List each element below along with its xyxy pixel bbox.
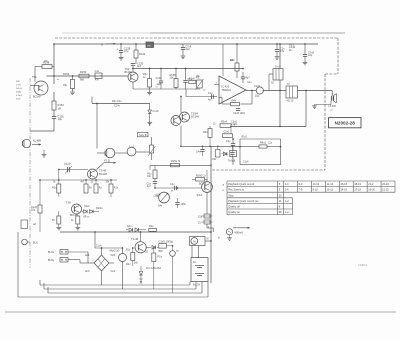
svg-text:R1/2x: R1/2x [96, 207, 103, 210]
connector BU12 [60, 258, 68, 263]
svg-text:B30: B30 [159, 251, 164, 253]
wire to speaker [298, 90, 333, 92]
test point arrow [233, 227, 250, 229]
connector BU2 [21, 220, 28, 229]
svg-text:R-C 160x164: R-C 160x164 [146, 267, 161, 270]
op-amp input stub [214, 84, 219, 86]
resistor R17b [149, 228, 157, 231]
svg-text:G1x: G1x [127, 225, 132, 228]
svg-text:47µ: 47µ [124, 49, 129, 53]
resistor R164 [84, 184, 88, 193]
component box mid [216, 150, 221, 158]
capacitor C134 [185, 69, 187, 81]
resistor R1b [208, 129, 212, 138]
capacitor C 100n [175, 202, 179, 204]
feedback resistor R4x [231, 102, 240, 105]
speaker LS402 [330, 96, 332, 101]
svg-text:19-20: 19-20 [368, 188, 375, 192]
wire TS3 feed [180, 97, 182, 113]
wire IC pin feed [222, 44, 224, 76]
svg-text:S4x2: S4x2 [197, 194, 203, 197]
svg-text:TBA641: TBA641 [222, 88, 232, 92]
box Solv B [138, 132, 149, 136]
capacitor C130 [132, 66, 134, 72]
wire TS3 down [180, 126, 182, 147]
svg-text:R142: R142 [139, 52, 146, 56]
wire IC supply [236, 44, 238, 63]
ground R156 [147, 91, 152, 93]
svg-text:C1x: C1x [208, 92, 213, 95]
svg-text:1M: 1M [58, 107, 61, 110]
svg-text:DYN: DYN [16, 85, 21, 87]
svg-text:R1x C1x: R1x C1x [112, 100, 122, 103]
svg-text:R1x: R1x [149, 225, 154, 228]
svg-text:1µ8: 1µ8 [157, 83, 162, 86]
faint bottom scan rule [5, 311, 396, 313]
connector BU11 [60, 250, 68, 255]
svg-text:15-16: 15-16 [340, 182, 347, 186]
svg-text:5mV: 5mV [16, 99, 21, 101]
bias arrow [97, 163, 105, 170]
capacitor C148 input [39, 180, 41, 205]
resistor R17x col [153, 170, 157, 179]
svg-text:10µ: 10µ [308, 54, 313, 57]
svg-text:47µ: 47µ [280, 50, 285, 53]
svg-text:TS6: TS6 [66, 201, 71, 205]
nest wire 4 [18, 296, 208, 298]
osc top wire [60, 231, 211, 233]
rect diode GR5 [129, 228, 133, 232]
svg-text:BU1x: BU1x [48, 251, 55, 254]
capacitor Ta [230, 151, 237, 157]
svg-text:C1x6: C1x6 [243, 162, 249, 164]
svg-text:R3x4: R3x4 [221, 121, 227, 124]
wire loop left [239, 139, 241, 165]
motor M [190, 237, 206, 246]
diode mid [223, 152, 227, 156]
svg-text:C1x0: C1x0 [114, 250, 120, 253]
bridge bottom wire [101, 271, 103, 285]
resistor R172 [76, 216, 80, 224]
capacitor C126 [52, 116, 56, 118]
battery cells [195, 265, 204, 267]
wire IC output [246, 90, 257, 92]
capacitor C128 [120, 44, 122, 51]
wire to head2 [96, 104, 98, 149]
test point ground [229, 235, 231, 238]
feedback loop [251, 91, 253, 105]
wire collector drop TS1 [53, 44, 55, 84]
resistor R170 [57, 216, 61, 224]
resistor R160 [196, 178, 205, 181]
svg-text:R16a 7k: R16a 7k [171, 160, 181, 163]
svg-text:S1x2: S1x2 [84, 205, 90, 208]
connector WB [146, 42, 154, 48]
ground below R152 [70, 91, 75, 93]
svg-text:2-4: 2-4 [285, 188, 289, 192]
resistor R178 [152, 253, 156, 262]
svg-text:R1x: R1x [158, 256, 163, 259]
ground S2 top [149, 123, 151, 126]
chassis ground zener [139, 279, 143, 282]
resistor R162 [58, 170, 60, 185]
nest wire 2 [44, 288, 196, 290]
resistor R156 [149, 69, 151, 79]
capacitor C17x col [153, 181, 157, 183]
svg-text:x1x: x1x [330, 110, 333, 112]
svg-text:C1x2: C1x2 [254, 85, 260, 88]
bridge top wire [101, 248, 103, 255]
op-amp IC420 [219, 76, 246, 104]
supply bus wire [54, 43, 318, 45]
svg-text:R1x2: R1x2 [242, 137, 248, 139]
svg-text:K7 11: K7 11 [104, 160, 111, 163]
svg-text:0.4x: 0.4x [196, 151, 201, 154]
svg-text:Gr2: Gr2 [111, 253, 116, 257]
svg-text:Quality on: Quality on [228, 210, 240, 214]
diode pair [82, 211, 84, 213]
resistor R1x4 [235, 63, 239, 71]
capacitor C mid1 [202, 146, 204, 149]
transistor TS40 [88, 169, 98, 179]
trimmer P1 [197, 80, 203, 88]
test point circle [226, 229, 232, 235]
svg-text:BC149: BC149 [33, 96, 41, 99]
wire rail link [150, 164, 211, 166]
svg-text:Rec Stereo to: Rec Stereo to [228, 188, 244, 192]
svg-text:B: B [101, 43, 103, 47]
resistor R3b [223, 134, 233, 138]
wire base TS1 [30, 85, 39, 87]
svg-text:7-9: 7-9 [299, 188, 303, 192]
resistor R176 [131, 253, 135, 261]
svg-text:10µ: 10µ [255, 94, 260, 97]
capacitor C136 supply [276, 44, 278, 50]
capacitor C136b [232, 139, 234, 144]
dashed frame step [325, 73, 338, 75]
transistor TS7 [202, 182, 213, 193]
capacitor C138 [304, 44, 306, 55]
svg-text:C1x: C1x [226, 140, 231, 143]
svg-text:8-10: 8-10 [313, 188, 319, 192]
wire loop bottom [240, 164, 281, 166]
wire to opamp input [186, 96, 213, 98]
feedback capacitor C1x8 [236, 108, 240, 110]
ground erase [147, 121, 152, 123]
wire base row TS7 [155, 187, 202, 189]
coupling C1x2 [256, 87, 263, 94]
screen dash-dot line [29, 78, 31, 268]
left rail [17, 232, 19, 297]
resistor R166 [94, 184, 98, 193]
svg-text:22-23: 22-23 [382, 182, 389, 186]
svg-text:2µ2: 2µ2 [186, 48, 191, 51]
svg-text:R1x: R1x [126, 263, 131, 266]
svg-text:Solv B: Solv B [139, 133, 147, 137]
svg-text:KL 488: KL 488 [33, 140, 41, 143]
svg-text:4µ7: 4µ7 [137, 64, 142, 68]
svg-text:10µ: 10µ [31, 209, 36, 212]
wire TS7 collector [206, 170, 208, 182]
battery box [191, 258, 208, 282]
capacitor C4u7 coupling [211, 94, 213, 98]
record head K2 [105, 148, 115, 158]
svg-text:GR xx: GR xx [83, 217, 90, 219]
svg-text:Quality off: Quality off [228, 205, 240, 209]
svg-text:R4x: R4x [232, 99, 237, 102]
capacitor C132 [160, 69, 162, 82]
resistor R148 [42, 65, 52, 69]
faint top scan rule [62, 32, 150, 34]
svg-text:21-22: 21-22 [382, 188, 389, 192]
svg-text:TS-48: TS-48 [131, 237, 139, 241]
svg-text:WB: WB [147, 45, 151, 47]
transistor TS48 [135, 242, 146, 253]
svg-text:Playback Quick record: Playback Quick record [228, 182, 255, 186]
resistor R16a [171, 163, 180, 166]
bridge rectifier [94, 255, 102, 263]
output transformer [286, 86, 298, 98]
diode D1 erase [149, 104, 151, 111]
svg-text:LS 402: LS 402 [329, 106, 337, 108]
svg-text:N2002-28: N2002-28 [335, 121, 356, 126]
switch stack [206, 192, 208, 214]
svg-text:TS1: TS1 [32, 76, 37, 79]
svg-text:10µ: 10µ [58, 117, 63, 121]
switch position table [227, 180, 395, 182]
resistor R152 [72, 76, 74, 80]
svg-text:64µ: 64µ [110, 251, 115, 253]
svg-text:4µ7: 4µ7 [246, 77, 251, 80]
svg-text:BU1y: BU1y [48, 259, 55, 262]
transistor TS2 [128, 72, 138, 82]
svg-text:C2x2: C2x2 [224, 131, 230, 134]
svg-text:S x 9: S x 9 [275, 65, 281, 68]
svg-text:C132: C132 [156, 77, 163, 80]
svg-text:C1x5 1000µ: C1x5 1000µ [159, 239, 174, 243]
wire mid link [181, 145, 240, 147]
wire trim top [59, 169, 88, 171]
lamp indicator [170, 251, 176, 257]
svg-text:R1x6: R1x6 [189, 77, 195, 80]
secondary bus wire [133, 68, 243, 70]
trimmer capacitor C142 [67, 167, 69, 172]
svg-text:C1x2*: C1x2* [64, 163, 71, 166]
svg-text:2x10k: 2x10k [16, 88, 23, 90]
resistor R142 [135, 44, 137, 50]
type label box [329, 118, 362, 128]
long vertical rail [210, 146, 212, 283]
svg-text:R4u2: R4u2 [260, 142, 267, 145]
svg-text:Gr4: Gr4 [111, 269, 116, 273]
capacitor C129 [182, 44, 184, 48]
svg-text:3-4: 3-4 [285, 182, 289, 186]
resistor R144 [259, 145, 267, 148]
svg-text:M: M [207, 239, 209, 241]
erase bus wire [92, 103, 150, 105]
wire R154 to C126 [53, 110, 55, 116]
svg-text:6-9: 6-9 [299, 182, 303, 186]
svg-text:18-19: 18-19 [354, 182, 361, 186]
dashed frame right edge lower [324, 74, 326, 170]
svg-text:BC148: BC148 [99, 172, 107, 176]
zener GR7 [140, 266, 142, 272]
svg-text:C1x4: C1x4 [96, 246, 102, 248]
svg-text:C1x8: C1x8 [153, 110, 159, 113]
capacitor Ta mid [230, 152, 234, 154]
motor leads [191, 246, 193, 258]
svg-text:Ta 6µ8: Ta 6µ8 [228, 160, 236, 163]
volume pot [159, 192, 170, 203]
svg-text:R150: R150 [80, 70, 87, 74]
resistor R2b [220, 124, 231, 128]
wire head link [30, 130, 54, 132]
bridge left wire [88, 262, 94, 264]
svg-text:MIC: MIC [16, 81, 20, 83]
svg-text:0.2mV: 0.2mV [16, 95, 23, 97]
svg-text:BU2: BU2 [33, 242, 38, 245]
capacitor C above IC [241, 76, 245, 78]
wire mid rail [40, 179, 117, 181]
svg-text:BC148: BC148 [199, 184, 207, 186]
socket circle [22, 239, 28, 245]
dashed frame right edge upper [337, 38, 339, 74]
elco C160 [119, 254, 127, 262]
svg-text:14-16: 14-16 [340, 188, 347, 192]
svg-text:C1x: C1x [170, 183, 175, 186]
svg-text:400mV: 400mV [235, 230, 244, 234]
svg-text:6k8: 6k8 [80, 79, 85, 82]
svg-text:10-12: 10-12 [326, 188, 333, 192]
wire C126 down [53, 118, 55, 131]
capacitor C序 [95, 73, 102, 79]
svg-text:C1x8 100n: C1x8 100n [233, 112, 246, 115]
svg-text:4Ω 10: 4Ω 10 [287, 99, 294, 102]
svg-text:R160 Cx: R160 Cx [196, 174, 206, 177]
svg-text:100n: 100n [181, 203, 187, 206]
tape head KL488 [22, 139, 30, 147]
svg-text:C14x: C14x [114, 105, 121, 108]
dashed frame bottom edge [212, 169, 325, 171]
svg-text:Gr1: Gr1 [85, 253, 90, 257]
transistor TS3 [171, 116, 181, 126]
wire choke down [279, 80, 281, 126]
svg-text:R152: R152 [63, 72, 70, 76]
ground speaker [315, 104, 332, 106]
svg-text:BC149: BC149 [125, 72, 133, 74]
svg-text:1M: 1M [44, 60, 47, 63]
svg-text:Playback Quick record rev.: Playback Quick record rev. [228, 199, 259, 203]
wire module bus [230, 125, 306, 127]
resistor R1x6 [189, 80, 196, 83]
driver choke S9 [279, 44, 281, 69]
bridge right wire [109, 262, 114, 264]
resistor R154 [52, 101, 56, 110]
svg-text:CS48C2: CS48C2 [358, 264, 368, 267]
wire choke tap [269, 73, 273, 75]
ground head [43, 150, 45, 154]
diode GR6 [152, 246, 156, 250]
svg-text:500Ω: 500Ω [16, 92, 22, 94]
svg-text:BC148: BC148 [70, 215, 78, 217]
transistor TS1 [34, 81, 48, 95]
transistor TS4 [180, 112, 190, 122]
svg-text:4µ7: 4µ7 [208, 99, 213, 102]
resistor R158 [175, 69, 177, 79]
transistor TS6 [72, 204, 82, 214]
svg-text:47n: 47n [95, 79, 100, 82]
jack circle [127, 147, 136, 156]
svg-text:10-12: 10-12 [313, 182, 320, 186]
svg-text:R1x: R1x [52, 187, 57, 190]
switch S2 [151, 137, 153, 145]
svg-text:6x1.5V: 6x1.5V [193, 285, 201, 287]
wire R to IC [236, 71, 238, 78]
svg-text:C1x: C1x [95, 69, 100, 73]
resistor R168 [109, 184, 113, 193]
capacitor C165 [159, 244, 167, 249]
head arrow [32, 144, 41, 146]
nest wire 3 [48, 292, 202, 294]
junction dots [53, 43, 55, 45]
svg-text:BC149: BC149 [191, 115, 199, 119]
svg-text:R6x: R6x [203, 131, 208, 134]
svg-text:S4x: S4x [158, 205, 163, 208]
wire TS1 collector chain [53, 92, 55, 101]
svg-text:R1x: R1x [114, 187, 119, 190]
dashed frame top edge [55, 37, 338, 39]
svg-text:21-2: 21-2 [368, 182, 374, 186]
wire TS2 emitter [132, 82, 134, 89]
capacitor on base row [174, 186, 176, 190]
wire loop top [240, 138, 281, 140]
svg-text:17-18: 17-18 [354, 188, 361, 192]
svg-text:Stop: Stop [228, 193, 234, 197]
resistor R150 [79, 74, 89, 78]
nest wire 1 [40, 284, 190, 286]
wire TS1 to TS2 [47, 75, 129, 77]
svg-text:1-2: 1-2 [285, 199, 289, 203]
svg-text:TS2: TS2 [125, 67, 130, 71]
wire bottoms row [150, 88, 201, 90]
svg-text:Gr3: Gr3 [85, 269, 90, 273]
wire loop right [280, 139, 282, 165]
svg-text:R1x: R1x [147, 173, 152, 176]
svg-text:1-2: 1-2 [285, 210, 289, 214]
svg-text:12-13: 12-13 [326, 182, 333, 186]
